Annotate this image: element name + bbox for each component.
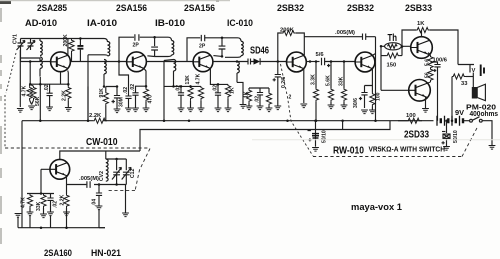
svg-text:2SA156: 2SA156 [116,3,147,13]
svg-text:2.2K: 2.2K [89,113,102,119]
wire Q1 collector up [67,39,69,56]
ground under 13K [187,108,194,112]
svg-text:.02: .02 [130,84,136,91]
node [40,192,43,195]
node [29,60,32,63]
capacitor .005(M) cw [87,181,90,188]
electrolytic 30M [112,87,121,110]
svg-text:1K: 1K [417,21,425,27]
wire Q3 collector [213,55,222,58]
svg-text:maya-vox 1: maya-vox 1 [351,202,402,212]
scan edge artifacts left [0,8,2,244]
resistor 33K [341,62,346,106]
ground CV1 return [17,109,24,113]
wire Th-node riser to Q7 base [381,46,409,90]
svg-text:5.6: 5.6 [425,59,431,66]
node bus [315,119,318,122]
wire Q4 out [306,61,319,63]
svg-text:IC-010: IC-010 [227,18,253,28]
resistor 4.7K [27,194,32,213]
node [236,60,239,63]
transistor Q8 2SA160 [50,159,70,179]
capacitor .02 [47,84,53,107]
svg-text:100: 100 [376,92,382,101]
bus left corner down [21,121,23,228]
wire T3 secondary bottom [237,82,243,104]
resistor 5.6K [328,62,333,106]
node base line junction [118,60,121,63]
svg-text:.02: .02 [53,201,59,208]
node [180,85,183,88]
ground Q4 emitter [300,104,307,108]
node [39,83,42,86]
resistor 56 [427,68,433,83]
node T1 secondary junction [103,85,106,88]
svg-text:56: 56 [425,72,431,78]
ground [178,108,185,112]
svg-text:150: 150 [387,63,397,69]
IF coil T3 primary [225,41,243,57]
ground under electrolytic [443,147,450,151]
resistor 470 [143,86,148,108]
wire T1 tap [88,55,117,121]
svg-text:30/6: 30/6 [353,98,359,108]
svg-text:CW-010: CW-010 [86,137,118,148]
ground under .04 [96,206,103,210]
ground under 5.6K [328,105,335,109]
svg-text:2SB33: 2SB33 [405,3,432,13]
wire Q5 emitter down [365,69,373,93]
resistor 1K det load [246,88,251,106]
svg-text:.005(M): .005(M) [79,176,99,182]
svg-text:2P: 2P [133,43,140,49]
oscillator trimmer coil [106,159,108,181]
capacitor .02 det [257,88,263,106]
ground switch return [489,146,496,150]
dashed trimmer boundary [106,149,150,192]
capacitor .02 [47,194,53,213]
svg-text:2.2K: 2.2K [61,90,67,101]
svg-text:200K: 200K [280,28,295,34]
capacitor neutralizing [219,38,226,57]
wire 33 riser [451,77,453,121]
wire riser to bus [87,87,89,121]
label V earphone [470,65,476,75]
wire 2P coupling rail [119,37,172,61]
svg-text:2SA285: 2SA285 [37,3,67,13]
resistor 2.2K emitter [64,177,69,228]
node [65,226,68,229]
capacitor .04 [96,183,102,206]
electrolytic 50/10 volume [308,119,320,146]
resistor 4.7K bias [27,84,32,104]
svg-text:470: 470 [148,95,154,104]
resistor 91K [103,87,108,121]
ground under trimmer [122,213,129,217]
svg-text:100/6: 100/6 [433,58,448,64]
ground under 30M [114,109,121,113]
resistor 100 [370,93,375,111]
svg-text:3.3K: 3.3K [310,74,316,85]
transistor Q3 2SA156 [193,52,213,72]
wire emitter tap [67,184,87,186]
battery 9V [437,116,470,126]
bottom rail CW [18,227,105,229]
resistor 56K parallel [30,84,36,104]
resistor 200K feedback [278,30,305,61]
resistor 200K osc feedback [69,39,74,62]
svg-text:VR5KΩ-A WITH SWITCH: VR5KΩ-A WITH SWITCH [369,145,446,154]
wire antenna bottom [21,50,51,62]
wire Q1 bottom [60,72,62,85]
wire Q7 emitter down [425,97,427,109]
resistor agc [266,92,271,108]
ground [132,108,139,112]
ground [266,108,273,112]
svg-text:400ohms: 400ohms [470,109,499,118]
node [67,83,70,86]
ground under 4.7K [198,108,205,112]
trimmer capacitor C12 [122,159,132,185]
capacitor .02 Q2 base bypass [119,62,132,109]
svg-text:30M: 30M [119,97,125,107]
svg-text:5/6: 5/6 [316,52,325,58]
thermistor Th [381,43,411,50]
ground [215,108,222,112]
speaker PM-020 [472,84,486,101]
ground [361,110,368,114]
svg-text:2SA160: 2SA160 [44,248,72,258]
transistor Q5 2SB32 [355,52,375,72]
ground under 2.2K [65,108,72,112]
node Th left [380,45,383,48]
svg-text:.02: .02 [255,96,261,103]
wire Q6 emitter to chain [428,53,430,56]
svg-text:2SA156: 2SA156 [184,3,215,13]
wire T2 secondary to bias [164,61,201,121]
wire base line Q3 out [213,61,248,63]
capacitor .005(M) feedback [304,34,375,40]
svg-text:50/10: 50/10 [453,130,459,143]
antenna coil [40,39,42,77]
faint scan crease [252,139,500,141]
lower return line [140,121,390,151]
wire rail to osc coil [105,151,107,159]
node bus [341,119,344,122]
svg-text:.02: .02 [123,87,129,94]
svg-text:4.7K: 4.7K [21,85,27,96]
electrolytic 50/10 battery [442,119,451,146]
dashed boundary CW [5,147,150,149]
ground [27,212,34,216]
switch on-off [470,117,492,145]
resistor 4.7K [198,86,203,108]
svg-text:C12: C12 [130,168,136,178]
node padder top [79,37,82,40]
svg-text:RW-010: RW-010 [333,146,364,157]
scan artifact top [0,0,11,4]
node [217,83,220,86]
svg-text:SD46: SD46 [250,46,269,57]
transistor Q7 2SD33 [409,80,431,102]
svg-text:IB-010: IB-010 [155,18,185,28]
wire osc coil return [39,77,41,121]
transistor Q2 2SA156 [127,52,147,72]
svg-text:2.2K: 2.2K [60,194,66,205]
ground [125,108,132,112]
svg-text:4.7K: 4.7K [21,197,27,208]
wire Q4 emitter down [303,69,305,103]
svg-text:.02: .02 [44,84,50,91]
riser lower line [342,121,344,130]
node [343,60,346,63]
IF coil T2 secondary [164,60,176,87]
capacitor padder [77,39,83,62]
variable capacitor CV1 [17,39,26,51]
wire agc tie [249,88,269,92]
capacitor .02 Q2 emitter [132,68,146,108]
wire Q6 collector to 1K [421,30,423,37]
svg-text:.005(M): .005(M) [335,30,355,36]
oscillator coil T1 primary [88,42,110,56]
svg-text:.04: .04 [92,199,98,206]
svg-text:4.7K: 4.7K [196,73,202,84]
svg-text:50/10: 50/10 [322,130,328,143]
svg-text:2SD33: 2SD33 [404,130,429,141]
wire Q8 base left [41,169,50,193]
ground under .02 [46,107,53,111]
node bus [188,119,191,122]
wire trimmer top [106,158,127,160]
svg-text:33: 33 [461,81,468,87]
node AF out [309,60,312,63]
ground under 1K [246,106,253,110]
ground near 2.2K [63,212,70,216]
wire trimmer bottom [94,184,126,186]
wire bias riser [29,62,31,85]
resistor 100 supply [398,118,422,123]
node [221,55,224,58]
capacitor neutralizing [151,37,158,56]
ground under 470 [143,108,150,112]
ground at rail left end [15,214,22,218]
resistor 1K [225,84,230,108]
dashed gang line from CV1 [5,53,16,147]
wire base line Q1 out [70,61,126,63]
svg-text:1K: 1K [244,91,250,98]
wire to speaker [458,65,473,88]
electrolytic 5/6 coupling [322,58,356,67]
capacitor .02 bias bypass [178,86,184,108]
electrolytic 100/6 [431,62,441,121]
dashed volume link [281,64,314,156]
svg-text:2P: 2P [199,44,206,50]
svg-text:100: 100 [406,113,416,119]
node [315,60,318,63]
resistor 150 [381,47,402,59]
node bus [374,119,377,122]
node rail [27,193,54,195]
diode SD46 [248,58,287,65]
wire trimmer ground drop [125,185,127,214]
resistor 2.2K Q1 emitter [66,71,71,108]
wire 2P coupling rail [187,38,241,62]
trimmer capacitor CV2 [112,159,122,185]
resistor 5.6 [428,56,433,70]
resistor 33K [41,194,46,215]
svg-text:33K: 33K [36,201,42,211]
node [153,36,156,39]
capacitor 2P series [135,34,139,40]
wire .04 tail [99,210,105,228]
wire base line Q2 out [146,61,193,63]
svg-text:9V: 9V [455,108,464,117]
svg-text:.02: .02 [212,85,218,92]
wire top rail converter [21,39,108,43]
svg-text:2SB32: 2SB32 [277,3,304,13]
wire CV1 return to ground [19,50,21,107]
node bus [87,119,90,122]
wire to bottom rail [29,216,31,228]
ground under volume electrolytic [312,148,319,152]
resistor 33 [452,74,473,79]
wire Q5 collector riser [372,37,375,121]
ground [369,110,376,114]
svg-text:IA-010: IA-010 [87,18,117,28]
ground [47,212,54,216]
node [172,85,175,88]
svg-text:200K: 200K [63,34,69,46]
wire Q8 collector rail [60,151,140,159]
main ground bus [22,120,434,122]
svg-text:0.2/6: 0.2/6 [281,77,287,88]
node [330,60,333,63]
ground [274,106,281,110]
svg-text:5.6K: 5.6K [325,75,331,86]
transistor Q6 2SB33 [411,37,433,59]
ground under 1K [225,108,232,112]
node Q2 emitter [145,85,148,88]
node [286,119,289,122]
ground [40,214,47,218]
node [40,226,43,229]
svg-text:1K: 1K [230,87,236,94]
svg-text:91K: 91K [99,88,105,98]
ground under 33K [341,105,348,109]
node detector out [277,60,280,63]
node [115,158,118,161]
node bus [163,119,166,122]
svg-text:13K: 13K [185,75,191,85]
node [401,45,404,48]
wire ground tail [50,216,52,228]
node bus [39,119,42,122]
node [29,83,32,86]
node [189,85,192,88]
capacitor 2P series [201,35,204,41]
transistor Q1 converter 2SA285 [51,52,71,72]
trimmer capacitor CT1 [27,39,36,51]
electrolytic 30/6 [359,86,368,109]
resistor 2.2K decoupling [93,118,107,123]
ground under .02 [257,106,264,110]
wire Q2 collector [147,55,154,58]
ground Q7 emitter [422,109,429,113]
svg-text:2SB32: 2SB32 [347,3,374,13]
transistor Q4 2SB32 [287,52,307,72]
resistor 13K [188,86,193,108]
svg-text:CV2: CV2 [99,171,105,181]
svg-text:AD-010: AD-010 [25,18,57,28]
svg-text:2: 2 [289,95,292,101]
node [451,119,454,122]
earphone jack [481,65,484,77]
node [115,183,118,186]
dashed volume boundary [313,126,478,157]
ground under T3 [240,105,247,109]
resistor 1K feedback loop [402,27,458,64]
electrolytic 0.2/6 [273,62,281,107]
resistor 3.3K [313,62,318,121]
oscillator coil T1 secondary [104,60,106,87]
ground bias pair [28,106,35,110]
node junction [116,85,119,88]
IF coil T3 secondary [237,62,239,83]
capacitor .02 Q3 emitter [210,68,228,108]
svg-text:33K: 33K [338,76,344,86]
wire emitter node rail [30,83,68,85]
svg-text:HN-021: HN-021 [91,248,121,258]
IF coil T2 primary [155,41,174,57]
node [221,37,224,40]
